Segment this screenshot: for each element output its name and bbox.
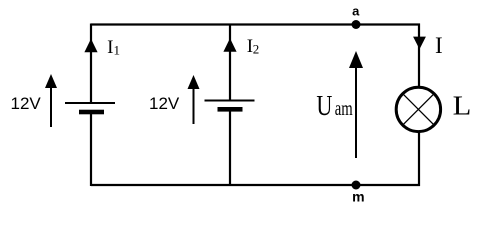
svg-text:U: U (316, 91, 332, 122)
svg-text:I: I (107, 37, 113, 58)
svg-text:12V: 12V (11, 94, 42, 113)
svg-text:2: 2 (253, 42, 259, 57)
svg-text:1: 1 (114, 42, 121, 57)
svg-text:I: I (435, 33, 443, 58)
svg-text:12V: 12V (149, 94, 180, 113)
svg-text:m: m (352, 189, 364, 205)
svg-text:am: am (335, 96, 353, 120)
svg-text:a: a (352, 4, 360, 19)
svg-text:L: L (453, 91, 472, 121)
